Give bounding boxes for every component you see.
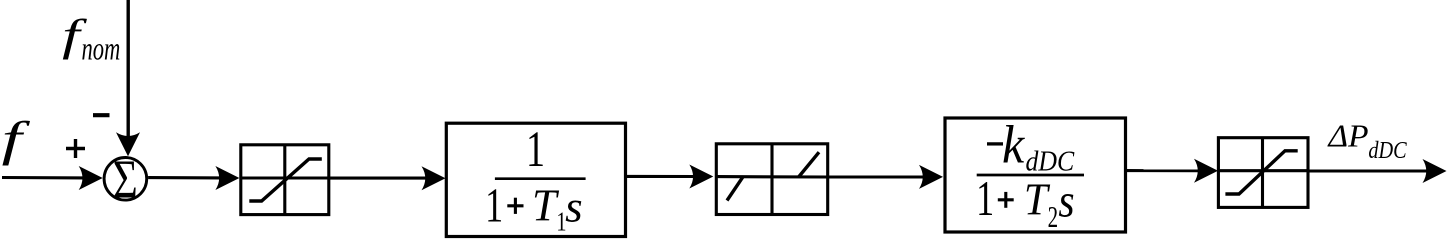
- label f_nom: [62, 10, 120, 68]
- minus sign at summing junction: [93, 113, 110, 117]
- plus sign at summing junction: [66, 139, 85, 158]
- svg-text:Σ: Σ: [113, 148, 138, 209]
- svg-text:dDC: dDC: [1026, 145, 1075, 177]
- transfer function block 1/(1+T1s) box: [446, 123, 625, 236]
- deadband block box: [716, 144, 827, 215]
- svg-text:f: f: [2, 112, 31, 166]
- fraction bar: [977, 174, 1084, 177]
- saturation block 1 horizontal axis / through wire: [241, 176, 329, 179]
- wire deadband block to transfer block T2: [828, 165, 943, 189]
- deadband block horizontal axis / through wire: [716, 175, 827, 178]
- svg-text:T: T: [1024, 173, 1051, 225]
- fraction denominator 1+T2s: [976, 172, 1075, 234]
- deadband right diagonal: [799, 152, 819, 177]
- wire input f: [2, 166, 103, 190]
- svg-text:s: s: [565, 182, 583, 231]
- wire saturation block 1 to transfer block T1: [329, 166, 446, 190]
- fraction numerator -k dDC: [987, 116, 1075, 177]
- wire transfer block T1 to deadband block: [626, 165, 714, 189]
- deadband left diagonal: [727, 176, 743, 200]
- summing junction circle: [104, 158, 147, 201]
- fraction denominator 1+T1s: [485, 179, 583, 237]
- label delta P dDC: [1326, 119, 1407, 164]
- svg-text:1: 1: [526, 121, 545, 178]
- svg-text:2: 2: [1048, 200, 1059, 234]
- saturation block 2 box: [1218, 138, 1308, 208]
- saturation block 1 curve: [249, 159, 321, 201]
- saturation block 1 vertical axis: [283, 145, 286, 215]
- wire f_nom vertical: [116, 0, 140, 156]
- svg-text:1: 1: [976, 172, 994, 227]
- svg-text:k: k: [1002, 116, 1025, 175]
- wire transfer block T2 to saturation block 2: [1126, 159, 1219, 183]
- svg-text:1: 1: [485, 179, 503, 233]
- svg-text:s: s: [1058, 174, 1074, 227]
- saturation block 2 horizontal axis / through wire: [1218, 169, 1308, 172]
- saturation block 2 curve: [1225, 151, 1297, 194]
- svg-text:dDC: dDC: [1368, 136, 1407, 163]
- saturation block 2 vertical axis: [1261, 138, 1264, 208]
- svg-text:nom: nom: [82, 31, 121, 67]
- svg-text:T: T: [532, 180, 560, 231]
- fraction bar: [495, 177, 586, 180]
- deadband block vertical axis: [770, 144, 773, 215]
- wire summing junction to saturation block 1: [148, 166, 239, 190]
- svg-text:ΔP: ΔP: [1326, 119, 1368, 154]
- wire output: [1308, 159, 1447, 183]
- transfer function block -kdDC/(1+T2s) box: [945, 118, 1126, 232]
- saturation block 1 box: [241, 145, 329, 215]
